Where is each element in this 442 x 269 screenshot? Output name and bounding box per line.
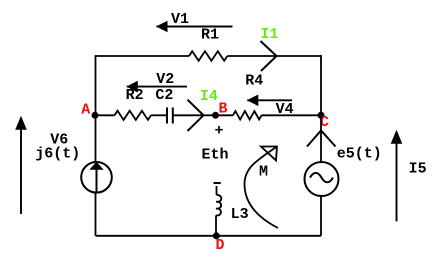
resistor R4 bbox=[233, 111, 262, 119]
voltage arrow V2 bbox=[126, 81, 187, 93]
svg-text:Eth: Eth bbox=[202, 147, 229, 164]
svg-text:C2: C2 bbox=[155, 87, 173, 104]
svg-text:M: M bbox=[259, 164, 268, 181]
node A bbox=[92, 112, 99, 119]
wire C2 to B bbox=[173, 114, 216, 116]
svg-text:A: A bbox=[81, 102, 90, 119]
voltage arrow V6 bbox=[15, 116, 27, 214]
node D bbox=[213, 232, 220, 239]
current arrow I4 bbox=[188, 100, 204, 131]
node B bbox=[212, 112, 219, 119]
wire R2 to C2 bbox=[151, 114, 167, 116]
wire bottom bbox=[96, 235, 322, 237]
svg-text:j6(t): j6(t) bbox=[35, 145, 80, 162]
wire B to R4 bbox=[216, 114, 234, 116]
voltage arrow V1 bbox=[156, 21, 233, 33]
svg-text:I1: I1 bbox=[261, 26, 279, 43]
svg-text:R1: R1 bbox=[201, 26, 219, 43]
wire right rail bbox=[320, 55, 322, 236]
svg-text:I4: I4 bbox=[200, 88, 218, 105]
mutual coupling arrow M bbox=[245, 147, 279, 229]
current arrow on source branch bbox=[307, 131, 336, 147]
svg-text:D: D bbox=[216, 237, 225, 254]
current arrow I5 bbox=[391, 130, 403, 222]
svg-text:R4: R4 bbox=[245, 72, 263, 89]
wire R4 to C bbox=[262, 114, 322, 116]
svg-text:V4: V4 bbox=[276, 101, 294, 118]
node C bbox=[318, 112, 325, 119]
voltage arrow V4 bbox=[247, 95, 292, 107]
svg-text:V1: V1 bbox=[171, 11, 189, 28]
svg-text:L3: L3 bbox=[231, 206, 249, 223]
svg-text:+: + bbox=[215, 122, 224, 139]
current arrow I1 bbox=[261, 41, 277, 71]
wire middle A to R2 bbox=[96, 114, 115, 116]
resistor R1 bbox=[189, 51, 227, 61]
minus sign of Eth bbox=[214, 182, 221, 184]
inductor L3 bbox=[216, 186, 221, 236]
svg-text:I5: I5 bbox=[409, 160, 427, 177]
voltage source E5 bbox=[305, 162, 339, 196]
wire left rail bbox=[95, 55, 97, 236]
capacitor C2 bbox=[167, 108, 173, 124]
svg-text:e5(t): e5(t) bbox=[337, 145, 382, 162]
wire top bbox=[96, 55, 322, 57]
current source J6 bbox=[81, 162, 112, 193]
svg-text:V2: V2 bbox=[156, 71, 174, 88]
resistor R2 bbox=[115, 111, 152, 120]
current source arrowhead bbox=[89, 162, 103, 170]
